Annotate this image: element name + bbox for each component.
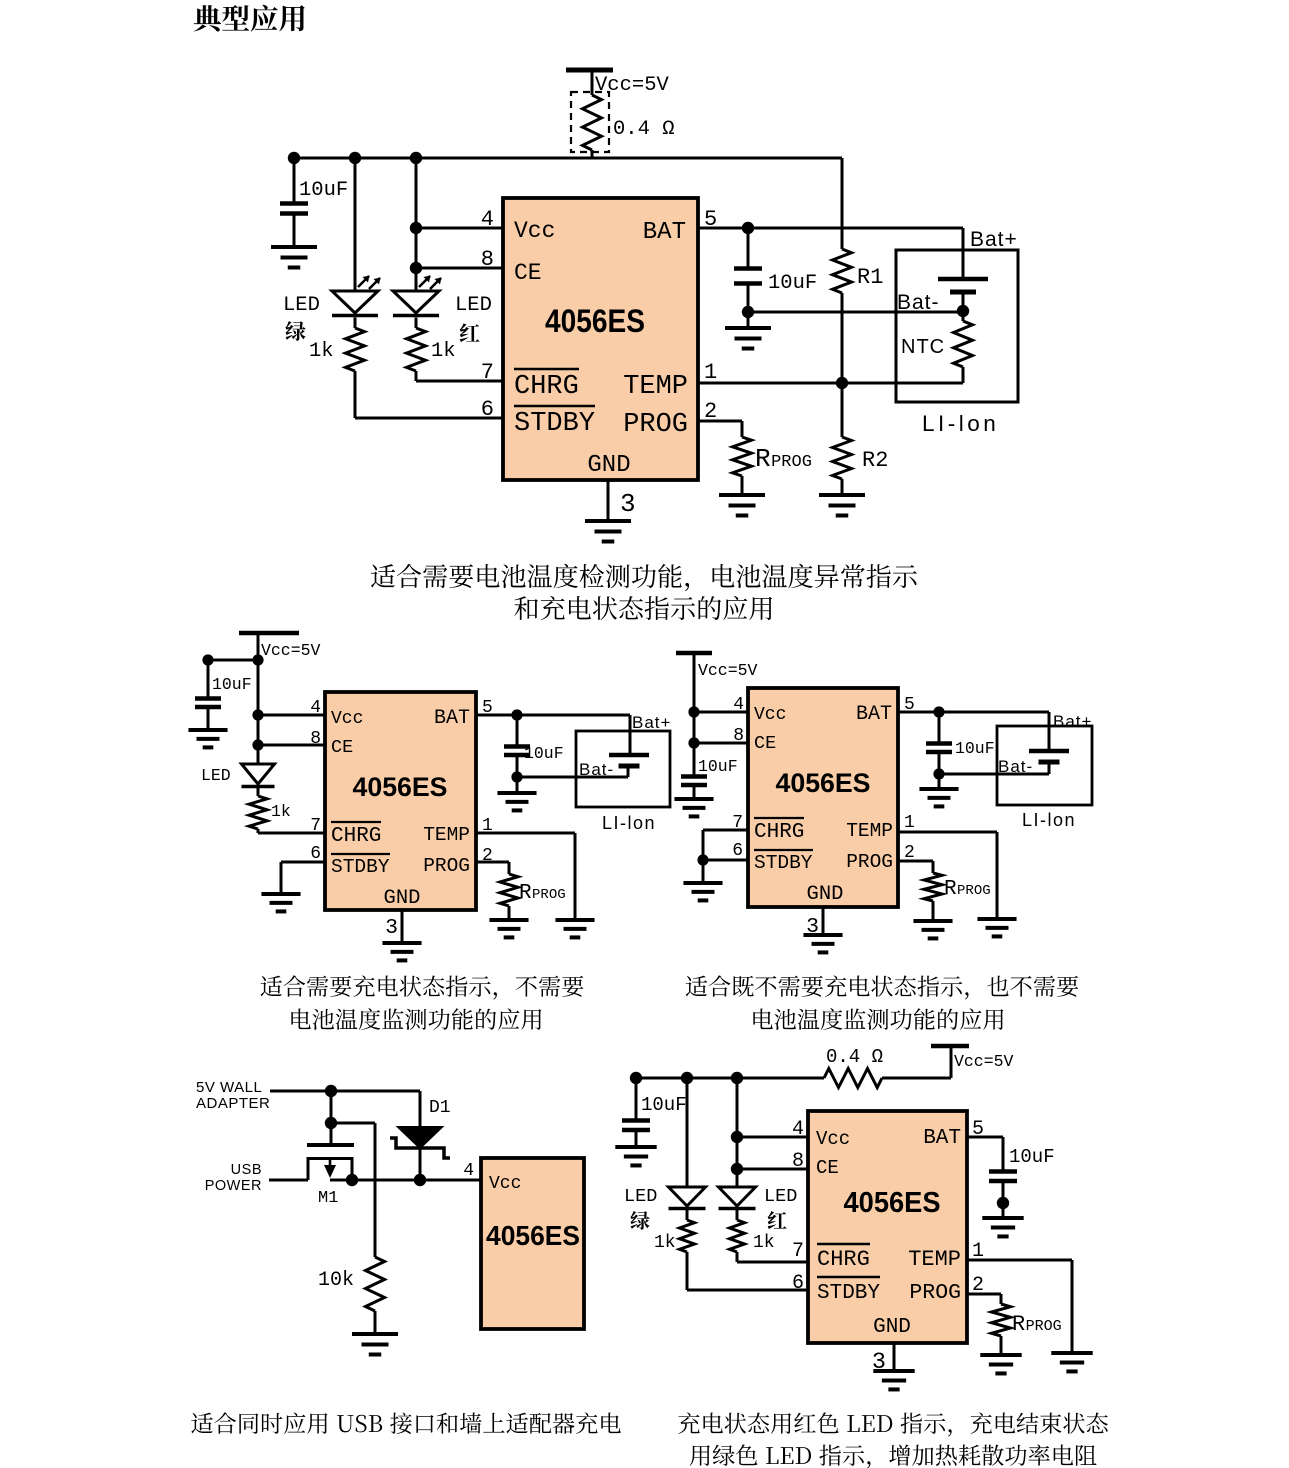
svg-text:7: 7 <box>792 1240 804 1263</box>
label LED (red) <box>455 294 492 317</box>
pin number 1 (c5) <box>972 1240 984 1263</box>
wire C5 bottom lead <box>693 785 696 799</box>
ground under CHRG/STDBY (c3) <box>683 883 722 900</box>
pin name Vcc (c4) <box>489 1174 521 1194</box>
svg-text:4056ES: 4056ES <box>545 303 645 339</box>
svg-text:NTC: NTC <box>901 336 945 358</box>
wire GND pin 3 (c5) <box>893 1343 896 1371</box>
svg-text:D1: D1 <box>429 1098 451 1118</box>
wire pin 4 Vcc (c3) <box>694 711 748 714</box>
wire to 10k branch top <box>331 1122 375 1125</box>
svg-text:STDBY: STDBY <box>817 1282 880 1305</box>
wire pin 8 CE (c3) <box>694 742 748 745</box>
wire LED to R (c2) <box>257 787 260 797</box>
svg-text:ADAPTER: ADAPTER <box>196 1095 270 1112</box>
resistor RPROG (circuit 3) <box>924 873 942 901</box>
wire resistor to Vcc corner (c5) <box>882 1077 951 1080</box>
junction C8 (c5) <box>997 1197 1009 1209</box>
pin number 3 (c2) <box>385 916 398 940</box>
resistor RPROG (circuit 5) <box>992 1304 1011 1336</box>
op-amp U4 4056ES (circuit 4 IC) <box>481 1158 584 1329</box>
svg-text:Vcc=5V: Vcc=5V <box>595 74 670 97</box>
wire R to CHRG corner (c5) <box>736 1252 739 1262</box>
svg-text:4056ES: 4056ES <box>776 768 871 798</box>
diode D1 schottky bar <box>390 1138 450 1158</box>
label LI-lon (c3) <box>1022 810 1076 830</box>
wire 10k branch down <box>374 1123 377 1257</box>
junction rail/C1 <box>288 152 300 164</box>
title 典型应用 <box>194 5 305 32</box>
ground under TEMP (c2) <box>555 920 594 937</box>
wire TEMP to R2 <box>841 383 844 437</box>
label 1k green (c5) <box>654 1233 676 1253</box>
wire battery minus lead <box>962 292 965 311</box>
svg-text:STDBY: STDBY <box>331 856 390 878</box>
label 1k red (c5) <box>753 1233 775 1253</box>
pin name TEMP (c2) <box>423 824 470 846</box>
wire PROG corner (c3) <box>932 861 935 873</box>
wire Bat+ drop (c3) <box>1048 712 1051 751</box>
capacitor C7 10uF <box>622 1121 650 1131</box>
svg-text:LI-lon: LI-lon <box>1022 810 1076 830</box>
wire C4 to ground <box>516 777 519 793</box>
wire C4 top lead <box>516 715 519 746</box>
capacitor C4 10uF <box>504 747 530 756</box>
svg-text:R: R <box>1012 1312 1025 1337</box>
svg-text:STDBY: STDBY <box>754 852 813 874</box>
svg-text:LED: LED <box>624 1186 657 1207</box>
pin number 1 <box>704 360 717 385</box>
junction branch/pin8 (c3) <box>688 737 699 748</box>
power Vcc bar (circuit 2) <box>239 631 299 636</box>
pin name BAT (c3) <box>856 703 892 726</box>
wire TEMP down (c3) <box>996 832 999 919</box>
wire branch to LED (c2) <box>257 660 260 764</box>
svg-text:4: 4 <box>733 695 744 715</box>
junction BAT/C4 (c2) <box>511 709 522 720</box>
dashed box around 0.4 ohm resistor <box>571 92 609 152</box>
svg-text:Vcc: Vcc <box>514 218 555 244</box>
wire NTC bottom to TEMP <box>962 367 965 383</box>
wire Bat- line (c3) <box>939 773 1049 776</box>
wire C7 top lead <box>635 1078 638 1120</box>
pin number 2 (c2) <box>482 846 493 866</box>
label C5 10uF <box>698 757 738 776</box>
node Bat- <box>897 291 940 314</box>
node Bat- (c3) <box>998 757 1033 776</box>
wire BAT pin 5 (c5) <box>967 1136 1003 1139</box>
ground under IC (c5) <box>873 1371 914 1389</box>
label 10k <box>318 1269 354 1292</box>
pin number 5 (c2) <box>482 698 493 718</box>
svg-text:4: 4 <box>310 698 321 718</box>
wire Bat+ drop <box>962 228 965 279</box>
label Vcc=5V (c2) <box>261 641 321 660</box>
svg-text:BAT: BAT <box>923 1127 961 1150</box>
svg-text:LED: LED <box>283 294 320 317</box>
svg-text:CHRG: CHRG <box>754 821 804 844</box>
wire R1 to TEMP <box>841 293 844 383</box>
ground under R2 <box>819 495 865 516</box>
wire Bat- line <box>748 311 963 314</box>
wire rail to R1 <box>841 158 844 249</box>
svg-text:Vcc=5V: Vcc=5V <box>698 661 758 680</box>
svg-text:Bat+: Bat+ <box>970 228 1018 251</box>
junction red branch/pin8 (c5) <box>731 1163 743 1175</box>
pin number 8 (c3) <box>733 726 744 746</box>
label RPROG (c5) <box>1012 1312 1062 1337</box>
resistor 0.4 ohm (c5) <box>824 1069 882 1088</box>
wire R to CHRG (c2) <box>257 829 260 833</box>
pin number 2 (c5) <box>972 1274 984 1297</box>
resistor 0.4 ohm <box>583 95 602 150</box>
svg-text:PROG: PROG <box>423 855 470 877</box>
ground under C7 <box>615 1147 656 1165</box>
LED (circuit 2) <box>242 764 275 787</box>
junction red branch / pin8 CE <box>410 262 422 274</box>
wire TEMP pin 1 (c5) <box>967 1259 1072 1262</box>
wire PROG corner down <box>741 421 744 437</box>
label RPROG <box>755 444 812 474</box>
part label 4056ES (c3) <box>776 768 871 798</box>
wire rail to red LED <box>415 158 418 291</box>
capacitor C1 10uF <box>280 204 308 214</box>
svg-text:4056ES: 4056ES <box>353 772 448 802</box>
wire GND pin 3 (c2) <box>401 910 404 943</box>
caption line 2 (circuit 2) <box>291 1008 541 1030</box>
svg-text:PROG: PROG <box>909 1281 961 1305</box>
svg-text:3: 3 <box>385 916 398 940</box>
wire Bat+ drop (c2) <box>629 715 632 755</box>
svg-text:CE: CE <box>331 737 353 758</box>
junction adapter/M1 branch <box>325 1085 337 1097</box>
svg-text:Vcc: Vcc <box>816 1128 850 1150</box>
junction red branch / pin4 Vcc <box>410 222 422 234</box>
junction rail/C7 (c5) <box>630 1072 642 1084</box>
pin number 7 (c2) <box>310 816 321 836</box>
svg-text:10uF: 10uF <box>524 744 564 763</box>
capacitor C2 10uF <box>734 269 762 284</box>
svg-text:R: R <box>944 878 957 901</box>
junction Bat-/NTC <box>957 305 969 317</box>
wire BAT to battery (c2) <box>476 714 630 717</box>
wire Bat- line (c2) <box>517 776 628 779</box>
label 1k (red) <box>431 340 456 363</box>
label LED green (c5) <box>624 1186 657 1207</box>
wire C8 bottom lead <box>1002 1181 1005 1203</box>
svg-text:3: 3 <box>620 489 636 519</box>
pin name BAT (c5) <box>923 1127 961 1150</box>
battery outline box (c2) <box>576 731 670 807</box>
battery LI-lon cell (c2) <box>609 755 649 766</box>
ground under C5 <box>674 799 713 816</box>
wire wall adapter line <box>270 1090 420 1093</box>
junction M1/10k branch <box>325 1117 337 1129</box>
wire pin 2 PROG <box>698 420 742 423</box>
label USB POWER <box>205 1162 262 1194</box>
caption line 1 (circuit 1) <box>371 564 917 591</box>
wire C6 top lead <box>938 712 941 743</box>
wire RPROG to ground (c3) <box>932 901 935 921</box>
wire green LED to R (c5) <box>686 1209 689 1220</box>
pin number 7 (c3) <box>732 813 743 833</box>
pin number 6 (c2) <box>310 844 321 864</box>
ground under RPROG <box>719 495 765 516</box>
pin name STDBY with overline <box>514 406 595 439</box>
wire R3 to STDBY corner <box>354 371 357 418</box>
wire to pin 6 STDBY (c5) <box>687 1289 808 1292</box>
transistor M1 top plate <box>307 1143 354 1147</box>
pin number 5 <box>704 207 717 232</box>
ground under C4 <box>497 793 536 810</box>
label R2 <box>862 448 888 473</box>
pin name PROG (c2) <box>423 855 470 877</box>
wire to pin 6 STDBY <box>355 417 503 420</box>
caption line 2 (circuit 5) <box>690 1444 1097 1468</box>
wire left rail (c2) <box>208 659 258 662</box>
svg-text:PROG: PROG <box>1026 1318 1062 1335</box>
pin name CE (c2) <box>331 737 353 758</box>
label 绿 (c5) <box>630 1211 649 1230</box>
pin name GND (c2) <box>384 887 421 910</box>
ground under C3 <box>188 730 227 747</box>
svg-text:CHRG: CHRG <box>514 372 579 402</box>
pin name GND (c5) <box>873 1316 911 1339</box>
svg-text:TEMP: TEMP <box>846 820 893 842</box>
svg-text:10uF: 10uF <box>955 739 995 758</box>
junction D1/Vcc line <box>414 1174 426 1186</box>
svg-text:PROG: PROG <box>846 851 893 873</box>
caption line 1 (circuit 3) <box>686 975 1079 999</box>
wire R to STDBY corner (c5) <box>686 1252 689 1290</box>
pin number 1 (c2) <box>482 816 493 836</box>
svg-text:1k: 1k <box>271 802 291 821</box>
wire pin 2 PROG (c2) <box>476 861 509 864</box>
svg-text:GND: GND <box>587 452 630 479</box>
pin number 5 (c3) <box>904 695 915 715</box>
svg-text:BAT: BAT <box>434 707 470 730</box>
svg-text:BAT: BAT <box>643 219 686 246</box>
svg-text:CE: CE <box>754 733 776 754</box>
wire C8 to ground <box>1002 1203 1005 1218</box>
node Bat+ (c3) <box>1053 712 1092 731</box>
svg-text:4: 4 <box>481 207 494 232</box>
ground under C2 <box>725 328 771 349</box>
wire C6 bottom lead <box>938 752 941 774</box>
svg-text:10uF: 10uF <box>641 1094 687 1116</box>
label 绿 <box>285 321 305 341</box>
svg-text:3: 3 <box>806 915 819 939</box>
pin number 4 (c2) <box>310 698 321 718</box>
svg-text:TEMP: TEMP <box>423 824 470 846</box>
wire pin 6 STDBY (c3) <box>703 859 748 862</box>
svg-text:GND: GND <box>384 887 421 910</box>
svg-text:Vcc: Vcc <box>489 1174 521 1194</box>
pin name Vcc (c2) <box>331 709 363 729</box>
junction branch/pin8 (c2) <box>252 739 263 750</box>
pin name CHRG (c2) <box>331 822 381 848</box>
op-amp U2 4056ES (circuit 2 IC) <box>325 692 476 910</box>
wire green LED to R3 <box>354 318 357 329</box>
resistor RPROG (circuit 2) <box>500 874 518 906</box>
svg-text:Bat+: Bat+ <box>632 713 671 732</box>
label LI-lon <box>922 411 999 436</box>
ground under C8 <box>982 1218 1023 1236</box>
svg-text:R2: R2 <box>862 448 888 473</box>
svg-text:STDBY: STDBY <box>514 409 595 439</box>
svg-text:TEMP: TEMP <box>908 1247 961 1272</box>
node Bat- (c2) <box>579 760 614 779</box>
svg-text:8: 8 <box>733 726 744 746</box>
svg-text:Vcc=5V: Vcc=5V <box>954 1052 1014 1071</box>
LED red (circuit 5) <box>719 1187 756 1209</box>
svg-text:8: 8 <box>792 1150 804 1173</box>
LED green (circuit 5) <box>669 1187 706 1209</box>
wire pin 4 Vcc (c5) <box>737 1136 808 1139</box>
wire battery minus lead (c3) <box>1048 762 1051 774</box>
svg-text:4: 4 <box>792 1118 804 1141</box>
label 1k (c2) <box>271 802 291 821</box>
caption (circuit 4) <box>191 1412 621 1434</box>
label C2 10uF <box>768 272 817 295</box>
label LED (c2) <box>201 766 231 785</box>
svg-text:1: 1 <box>704 360 717 385</box>
pin name CE (c5) <box>816 1157 839 1179</box>
svg-text:R: R <box>755 444 771 474</box>
svg-text:CHRG: CHRG <box>817 1247 870 1272</box>
thermistor NTC <box>954 321 973 367</box>
part label 4056ES (c2) <box>353 772 448 802</box>
label C3 10uF <box>212 675 252 694</box>
wire USB power to gate <box>269 1179 308 1182</box>
pin number 2 (c3) <box>904 843 915 863</box>
svg-text:10uF: 10uF <box>768 272 817 295</box>
wire TEMP down (c5) <box>1071 1260 1074 1353</box>
wire battery minus lead (c2) <box>627 766 630 777</box>
svg-text:10uF: 10uF <box>1009 1146 1055 1168</box>
wire TEMP pin 1 (c2) <box>476 832 575 835</box>
caption line 2 (circuit 3) <box>753 1008 1003 1030</box>
svg-text:6: 6 <box>792 1272 804 1295</box>
label 0.4 Ω <box>613 118 675 141</box>
label 0.4 Ω (c5) <box>826 1046 883 1068</box>
resistor 1k red (c5) <box>730 1220 745 1252</box>
ground under STDBY (c2) <box>261 894 300 911</box>
label C7 10uF <box>641 1094 687 1116</box>
svg-text:M1: M1 <box>318 1189 338 1208</box>
pin number 4 (c4) <box>463 1161 474 1181</box>
svg-text:PROG: PROG <box>532 887 566 903</box>
pin number 4 (c5) <box>792 1118 804 1141</box>
wire red LED to R (c5) <box>736 1209 739 1220</box>
svg-text:BAT: BAT <box>856 703 892 726</box>
pin number 6 <box>481 397 494 422</box>
svg-text:8: 8 <box>481 247 494 272</box>
wire RPROG to ground (c5) <box>1000 1336 1003 1355</box>
wire rail to green LED <box>354 158 357 291</box>
junction rail/main branch (c2) <box>252 654 263 665</box>
wire D1 to Vcc line <box>419 1148 422 1180</box>
pin number 8 <box>481 247 494 272</box>
wire R2 to ground <box>841 479 844 495</box>
pin name CHRG with overline <box>514 369 579 402</box>
label 1k (green) <box>309 340 334 363</box>
junction C4/Bat- (c2) <box>511 771 522 782</box>
wire TEMP down (c2) <box>574 833 577 920</box>
wire GND pin 3 (c3) <box>822 907 825 935</box>
resistor 1k (green LED) <box>346 328 365 371</box>
ground under TEMP (c5) <box>1051 1353 1092 1371</box>
svg-text:Bat+: Bat+ <box>1053 712 1092 731</box>
wire C2 to ground <box>747 312 750 328</box>
part label 4056ES (c5) <box>844 1187 941 1219</box>
battery outline box LI-lon <box>896 250 1018 402</box>
wire C7 bottom lead <box>635 1130 638 1147</box>
LED red light arrows <box>419 276 442 290</box>
ground under RPROG (c3) <box>913 921 952 938</box>
svg-text:1k: 1k <box>309 340 334 363</box>
svg-text:R: R <box>519 882 532 905</box>
label LED red (c5) <box>764 1186 797 1207</box>
svg-text:Bat-: Bat- <box>579 760 614 779</box>
power Vcc bar (circuit 3) <box>676 651 712 656</box>
label RPROG (c2) <box>519 882 566 905</box>
junction rail/green branch (c5) <box>681 1072 693 1084</box>
wire STDBY down (c3) <box>702 860 705 883</box>
ground under RPROG (c5) <box>980 1355 1021 1373</box>
junction M1 source/USB line <box>346 1174 358 1186</box>
svg-text:4056ES: 4056ES <box>844 1187 941 1219</box>
label Vcc=5V (c3) <box>698 661 758 680</box>
ground under IC (pin 3) <box>585 521 631 542</box>
wire RPROG to ground <box>741 476 744 495</box>
op-amp U1 4056ES (circuit 1 IC) <box>503 198 698 480</box>
svg-text:4: 4 <box>463 1161 474 1181</box>
ground under C6 <box>919 789 958 806</box>
wire pin 8 CE (c5) <box>737 1168 808 1171</box>
pin name CHRG (c5) <box>817 1244 870 1272</box>
wire pin 6 STDBY (c2) <box>281 861 325 864</box>
wire pin 8 CE (c2) <box>258 744 325 747</box>
resistor 1k (red LED) <box>407 328 426 371</box>
svg-text:LI-lon: LI-lon <box>922 411 999 436</box>
pin number 7 (c5) <box>792 1240 804 1263</box>
label 红 <box>460 323 480 342</box>
wire TEMP pin 1 <box>698 382 963 385</box>
wire branch down (c3) <box>693 712 696 776</box>
svg-text:5V WALL: 5V WALL <box>196 1079 262 1096</box>
transistor M1 gate bracket <box>308 1159 352 1181</box>
pin name PROG <box>623 410 688 440</box>
wire supply rail (c5) <box>636 1077 824 1080</box>
svg-text:1: 1 <box>904 813 915 833</box>
pin number 6 (c5) <box>792 1272 804 1295</box>
wire C3 bottom lead <box>207 707 210 730</box>
resistor R1 <box>833 249 852 293</box>
wire Vcc stem (c2) <box>257 633 260 660</box>
junction C2/Bat- line <box>742 306 754 318</box>
resistor RPROG (circuit 1) <box>733 437 752 476</box>
svg-text:TEMP: TEMP <box>623 372 688 402</box>
wire top supply rail <box>294 157 842 160</box>
battery LI-lon cell <box>938 279 988 292</box>
part label 4056ES <box>545 303 645 339</box>
svg-text:Vcc=5V: Vcc=5V <box>261 641 321 660</box>
battery LI-lon cell (c3) <box>1029 751 1069 762</box>
svg-text:PROG: PROG <box>957 883 991 899</box>
pin number 8 (c2) <box>310 729 321 749</box>
wire adapter to D1 <box>419 1091 422 1127</box>
